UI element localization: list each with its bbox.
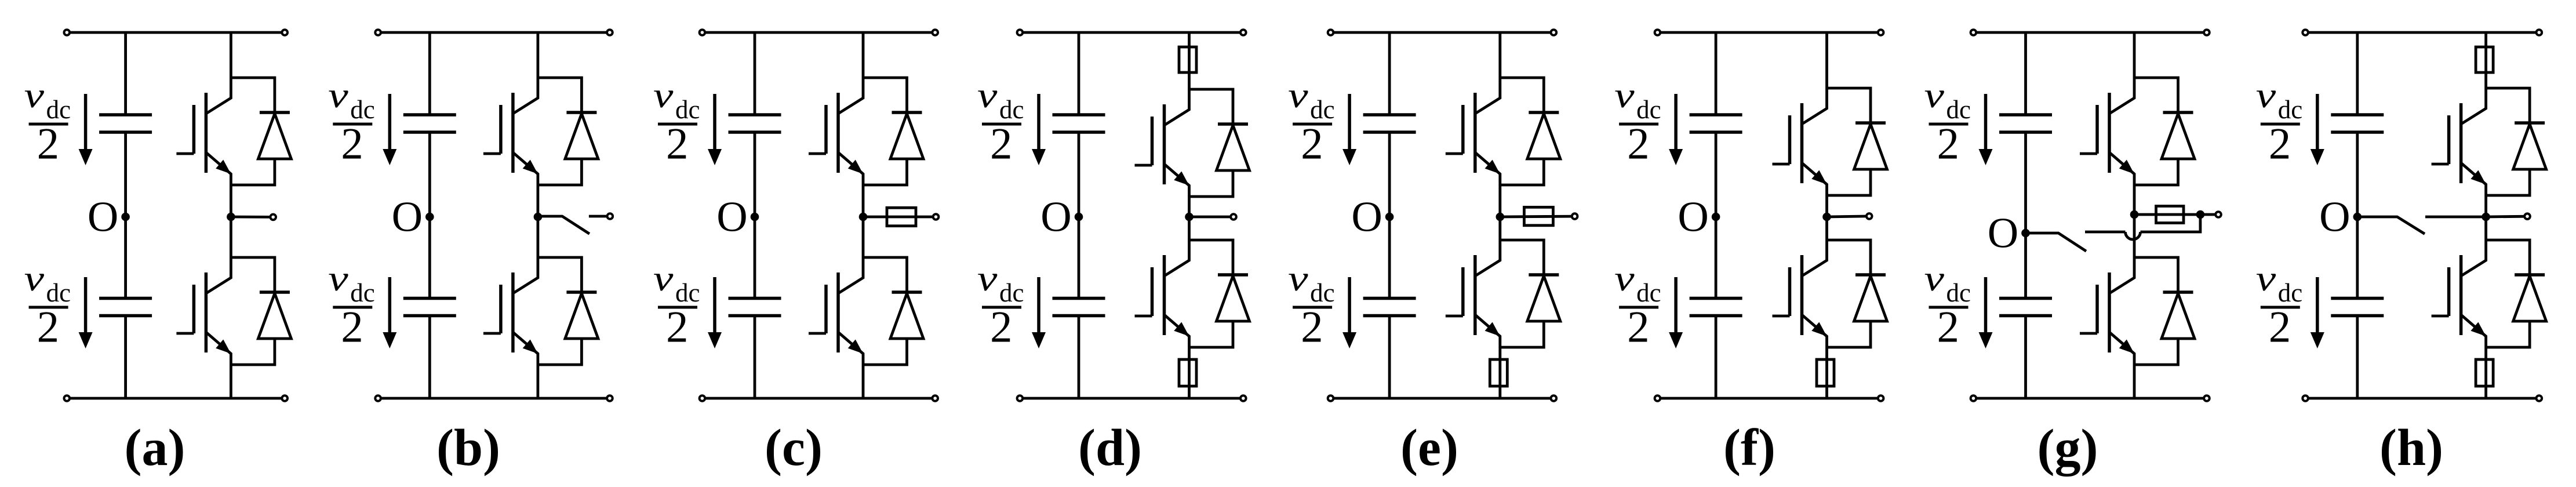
svg-text:2: 2 — [1301, 119, 1323, 169]
svg-text:v: v — [1924, 75, 1945, 115]
svg-text:O: O — [88, 194, 118, 241]
svg-text:v: v — [2256, 259, 2276, 299]
svg-text:2: 2 — [2269, 119, 2291, 169]
svg-text:2: 2 — [1301, 302, 1323, 352]
svg-text:v: v — [1924, 259, 1945, 299]
svg-text:v: v — [977, 259, 998, 299]
svg-text:(g): (g) — [2037, 419, 2098, 477]
svg-text:(b): (b) — [436, 419, 500, 477]
svg-text:v: v — [24, 75, 45, 115]
svg-text:v: v — [1288, 75, 1308, 115]
svg-text:O: O — [1678, 194, 1708, 241]
svg-text:v: v — [328, 75, 348, 115]
svg-text:2: 2 — [37, 302, 60, 352]
svg-text:2: 2 — [2269, 302, 2291, 352]
svg-text:O: O — [716, 194, 747, 241]
svg-text:O: O — [2319, 194, 2350, 241]
svg-text:v: v — [24, 259, 45, 299]
svg-text:2: 2 — [1627, 302, 1650, 352]
svg-text:v: v — [1288, 259, 1308, 299]
svg-text:v: v — [2256, 75, 2276, 115]
svg-text:v: v — [1614, 75, 1635, 115]
svg-text:2: 2 — [666, 119, 689, 169]
svg-text:(a): (a) — [125, 419, 185, 477]
svg-text:O: O — [1351, 194, 1382, 241]
svg-text:2: 2 — [1937, 302, 1960, 352]
svg-text:2: 2 — [341, 119, 363, 169]
svg-text:v: v — [653, 259, 674, 299]
svg-text:2: 2 — [37, 119, 60, 169]
svg-text:v: v — [328, 259, 348, 299]
svg-text:v: v — [653, 75, 674, 115]
svg-text:O: O — [1040, 194, 1071, 241]
svg-text:2: 2 — [341, 302, 363, 352]
svg-text:(e): (e) — [1400, 419, 1458, 477]
svg-text:v: v — [977, 75, 998, 115]
svg-text:O: O — [392, 194, 423, 241]
svg-text:2: 2 — [990, 302, 1013, 352]
svg-text:2: 2 — [1937, 119, 1960, 169]
svg-text:(f): (f) — [1723, 419, 1775, 477]
svg-text:2: 2 — [990, 119, 1013, 169]
svg-text:(d): (d) — [1078, 419, 1142, 477]
svg-text:(h): (h) — [2379, 419, 2443, 477]
svg-text:2: 2 — [666, 302, 689, 352]
svg-text:v: v — [1614, 259, 1635, 299]
svg-text:O: O — [1988, 210, 2018, 257]
svg-text:(c): (c) — [765, 419, 823, 477]
svg-text:2: 2 — [1627, 119, 1650, 169]
